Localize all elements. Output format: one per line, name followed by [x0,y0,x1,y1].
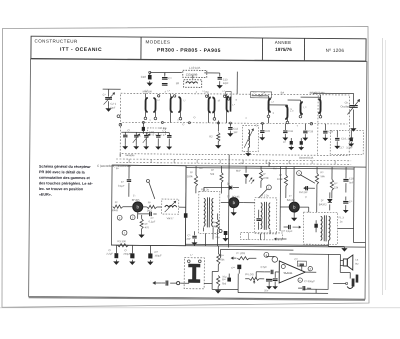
svg-text:R2: R2 [209,134,213,138]
svg-text:ITT - OCEANIC: ITT - OCEANIC [60,47,102,53]
svg-text:1975/76: 1975/76 [275,47,292,52]
svg-text:+: + [299,279,301,283]
tone pot P2 [245,273,264,284]
bottom-left wiring [204,271,238,289]
svg-text:Accord A.M.: Accord A.M. [299,156,314,160]
IF transformer FI1 [199,187,225,233]
svg-text:25µ: 25µ [215,236,220,239]
svg-text:0,1µF: 0,1µF [149,219,156,223]
aerial input link [153,280,189,285]
svg-text:«EUR».: «EUR». [39,193,52,197]
mute arrow link [274,238,286,240]
svg-text:R⁵: R⁵ [145,222,148,226]
capacitor C13 12pF [217,73,229,88]
resistor R9 [315,167,325,213]
svg-text:C16: C16 [288,129,293,133]
extra value labels mid strip [116,161,308,199]
resistor R11 [217,246,226,272]
staircase wire section C [288,100,301,102]
svg-text:R²⁶: R²⁶ [213,220,217,224]
svg-text:TAA611: TAA611 [283,271,293,275]
mid vertical wires [185,161,294,248]
second bus wire [185,244,328,245]
switch section box small [226,92,232,101]
capacitor C20 [343,167,354,193]
svg-text:L⁶: L⁶ [223,89,225,93]
staircase wire section A [252,96,269,99]
svg-text:CONSTRUCTEUR: CONSTRUCTEUR [35,39,78,44]
svg-text:des touches préréglées. Le sé-: des touches préréglées. Le sé- [39,181,94,185]
svg-text:C⁶: C⁶ [121,180,124,184]
switch rail labels [143,89,326,94]
svg-text:P² LOG: P² LOG [245,273,254,276]
switch contact S1 [146,179,155,199]
svg-text:BA102: BA102 [319,202,327,206]
feedback contact [281,264,285,268]
svg-text:12pF: 12pF [223,81,229,85]
switch contact c6 [272,257,278,263]
band switch coil group 7 [299,102,303,118]
resistor R10 [330,167,339,199]
resistor R6 [147,200,162,212]
svg-text:C17: C17 [339,146,344,149]
svg-text:C⁶ 47p: C⁶ 47p [159,126,167,130]
transistor T2 [221,194,244,215]
boot network box [297,261,306,268]
band switch coil group 2 [170,94,182,123]
svg-text:56k: 56k [320,174,325,178]
svg-text:Schéma général du récepteur: Schéma général du récepteur [39,165,91,169]
svg-text:Oscillateur: Oscillateur [341,104,353,108]
svg-text:220k: 220k [263,176,269,180]
FM AM divider dashed [310,95,318,155]
svg-text:R⁷: R⁷ [263,172,266,176]
long vertical wire left of T3 [279,166,282,230]
svg-text:L⁸: L⁸ [233,103,235,107]
svg-text:C2-1: C2-1 [111,102,117,106]
svg-text:C²³ 0,1µF: C²³ 0,1µF [282,229,293,233]
op-amp TAA611 [279,261,316,283]
svg-text:56k: 56k [210,172,215,176]
svg-text:MA¹: MA¹ [236,169,241,173]
svg-text:C⁸: C⁸ [254,90,257,94]
svg-text:BF255 T.AM: BF255 T.AM [310,91,326,95]
svg-text:5R1: 5R1 [149,130,155,134]
svg-text:R⁵: R⁵ [211,168,214,172]
svg-text:P¹ LOG: P¹ LOG [236,251,245,255]
FM link capacitor [299,186,315,194]
svg-text:470: 470 [145,225,150,229]
electrolytic C31 [215,229,227,240]
speaker [343,255,358,270]
T1 emitter network [138,211,157,237]
svg-text:C20: C20 [349,177,354,181]
transistor T1 [123,194,147,212]
svg-text:C13: C13 [223,78,228,82]
svg-text:lec. se trouve en position: lec. se trouve en position [39,187,84,191]
bus wire B+ [111,165,354,242]
svg-text:T³: T³ [289,194,292,198]
svg-text:FI 2 2e: FI 2 2e [261,193,270,197]
resistor R7 [259,166,269,188]
audio amplifier box [289,254,328,289]
switch contact c5 [297,171,315,184]
diode D1 [225,182,239,190]
switch contact c3 [308,266,312,270]
svg-text:R⁹: R⁹ [321,170,324,174]
svg-text:T¹: T¹ [133,194,136,198]
svg-text:FI 1 2e: FI 1 2e [201,187,210,191]
svg-text:COX899: COX899 [186,73,198,77]
svg-text:C⁵: C⁵ [188,233,191,237]
rail small marks [129,159,335,164]
resistor R12 [216,275,227,292]
svg-text:R¹: R¹ [115,200,118,204]
more top labels [157,91,298,127]
svg-text:C³-300µF: C³-300µF [304,280,315,283]
svg-text:C²: C² [283,140,286,144]
svg-text:2,2µF: 2,2µF [106,253,113,256]
svg-text:100µF: 100µF [154,254,162,257]
svg-text:BA: BA [281,90,285,94]
svg-text:C³⁵: C³⁵ [294,257,298,261]
decoupling diode network [236,166,254,184]
wire top feed [150,71,238,94]
svg-text:39kΩ: 39kΩ [112,208,118,212]
capacitor C21 [343,196,352,212]
svg-text:commutation des gammes et: commutation des gammes et [39,176,91,180]
earphone jack [347,274,358,288]
diode D2 [319,192,332,210]
switch contacts under T1 [117,215,135,235]
svg-text:180k: 180k [187,174,193,178]
header table [31,36,366,61]
resistor R3 bottom [117,239,128,247]
filter box 5R1 [137,122,165,138]
svg-text:D²: D² [321,198,324,202]
svg-text:PR 300 avec le détail de la: PR 300 avec le détail de la [39,170,86,174]
svg-text:9V: 9V [240,162,243,165]
output capacitors [298,286,311,291]
capacitor C35 [294,257,304,270]
svg-text:R3 300: R3 300 [117,239,126,243]
svg-text:L²: L² [158,99,160,102]
svg-text:C16, 1.5nF: C16, 1.5nF [341,136,354,140]
svg-text:L⁵: L⁵ [203,89,205,93]
coil L10 AM box [183,66,207,78]
resistor R4 [187,166,198,194]
svg-text:L¹¹: L¹¹ [304,106,307,109]
svg-text:C¹¹: C¹¹ [168,76,172,80]
svg-text:L¹: L¹ [146,89,148,92]
bootstrap capacitor C34 [298,278,315,283]
capacitor C5 bottom [186,231,196,245]
band switch coil group 4 [226,94,230,123]
input trimmer capacitor C4 [102,89,120,111]
svg-text:12pF: 12pF [110,106,116,110]
capacitor C10 [141,71,152,85]
switch contact c4 [264,252,269,257]
svg-text:5nF: 5nF [349,181,354,185]
svg-text:C10: C10 [141,75,147,79]
electrolytic C26 [123,245,134,264]
svg-text:220µF: 220µF [123,253,131,256]
svg-text:C²¹: C²¹ [349,200,353,204]
rail contacts [157,95,225,98]
svg-text:Variable: Variable [125,153,135,157]
svg-text:ANNEE: ANNEE [275,40,292,45]
svg-text:2nF: 2nF [186,237,191,241]
svg-text:8Ω: 8Ω [355,263,358,266]
svg-text:10µ: 10µ [222,276,227,279]
svg-text:C18: C18 [308,129,313,133]
svg-text:R¹¹: R¹¹ [220,254,224,257]
resistor R2 vertical [209,120,220,147]
capacitor on box edge [184,213,188,218]
svg-text:AM: AM [199,167,203,170]
extra value labels top strip [145,88,306,131]
tuner bottom capacitor row [260,123,334,140]
band switch coil group 6 [285,106,289,124]
tuner sub box oscillator coil [242,126,258,156]
capacitor C23 output [282,225,301,233]
coil L8 FM box [176,80,202,88]
capacitor C11 [162,73,172,86]
FI lead wires [205,229,270,246]
svg-text:PR300 - PR805 - PA905: PR300 - PR805 - PA905 [157,47,221,54]
electrolytic C27 [148,245,162,264]
svg-text:T³: T³ [305,196,307,199]
svg-text:C⁵: C⁵ [193,115,196,119]
IF transformer FI2 [244,193,277,234]
band switch coil group 1 [144,93,157,119]
svg-text:C³²: C³² [231,267,235,270]
coupling capacitor C32 [231,265,241,274]
tuner capacitor C12 with ground [228,123,239,136]
capacitor C33 [222,274,231,282]
switch section box DG [251,92,272,98]
svg-text:C12: C12 [233,127,238,131]
svg-text:L.10 A.M.: L.10 A.M. [189,66,201,70]
switch contact input [117,115,122,126]
caption text block [39,165,94,197]
svg-text:FM 2nF: FM 2nF [299,190,308,194]
svg-text:BF195: BF195 [232,195,240,199]
svg-text:FM: FM [205,90,209,94]
lower dashed rails [116,159,351,164]
svg-text:C⁷: C⁷ [255,123,258,127]
svg-text:CA: CA [262,90,266,94]
amp wiring [238,254,350,294]
svg-text:C¹¹: C¹¹ [137,135,141,138]
sub box C16 C17 [330,130,363,154]
schematic frame [29,59,367,300]
svg-text:3.3nF: 3.3nF [346,146,353,149]
svg-text:L³: L³ [168,90,170,93]
svg-text:D¹: D¹ [227,182,230,186]
svg-text:Var.L²: Var.L² [167,216,174,220]
svg-text:L⁹: L⁹ [272,100,274,104]
svg-text:5k6: 5k6 [222,283,227,286]
resistor R26 [212,213,219,246]
svg-text:C (accordeur) «EUR/LW»: C (accordeur) «EUR/LW» [97,164,131,168]
input capacitor amp [260,266,279,274]
svg-text:L8: L8 [176,81,180,85]
AM converter box [111,165,186,246]
oscillator trimmer [312,93,359,131]
band switch coil group 3 [208,94,216,123]
resistor R1 input [112,200,123,212]
svg-text:C⁸: C⁸ [151,216,154,220]
tuner dashed enclosure [120,93,349,155]
svg-text:FL 3: FL 3 [339,215,345,219]
variable inductor L2 [162,199,186,220]
svg-text:25V: 25V [264,289,269,292]
preamp dashed box [240,233,282,240]
svg-text:MW: MW [213,225,218,228]
detector transformer FL3 [303,212,344,244]
rail2 contacts [142,121,263,124]
band switch coil group 5 [267,99,271,124]
volume pot P1 [220,249,293,260]
transistor T3 [280,194,309,221]
ferrite antenna box [184,253,204,289]
electrolytic C25 [106,245,118,264]
svg-text:L⁷: L⁷ [190,253,192,257]
svg-text:0,1µF: 0,1µF [118,184,125,188]
svg-text:1nF: 1nF [233,130,238,134]
frame link wires [119,154,366,243]
FL3 ground [328,240,346,251]
svg-text:BF495: BF495 [132,198,140,202]
svg-text:R⁶: R⁶ [148,200,151,204]
decoupling caps P2 [264,272,278,293]
electrolytic C22 group [283,138,303,150]
capacitor C6 on feed [118,165,131,197]
svg-text:R¹²: R¹² [222,279,226,282]
band switch coil group 8 [300,95,321,118]
staircase wire section B [269,105,288,106]
svg-text:C³: C³ [127,129,130,132]
switch contact c1 [259,185,272,198]
svg-text:4,7µF: 4,7µF [260,266,267,269]
svg-text:LS: LS [355,259,358,262]
svg-text:22k: 22k [334,185,339,189]
box link wire [192,75,194,78]
resistor R8 [277,166,288,198]
svg-text:C15: C15 [265,129,270,133]
svg-text:C19: C19 [328,129,333,133]
svg-text:L⁴: L⁴ [184,98,186,102]
bottom bus wire [111,245,365,248]
svg-text:MODELES: MODELES [146,39,171,44]
capacitor C at FI2 [256,210,261,230]
svg-text:C⁷: C⁷ [182,122,185,126]
trimmer bank capacitors [121,128,171,157]
svg-text:FM: FM [273,167,276,170]
resistor R5 [210,166,223,194]
svg-text:Ch.: Ch. [345,100,349,104]
svg-text:R⁴: R⁴ [190,170,193,174]
svg-text:Nº 1206: Nº 1206 [326,48,345,53]
